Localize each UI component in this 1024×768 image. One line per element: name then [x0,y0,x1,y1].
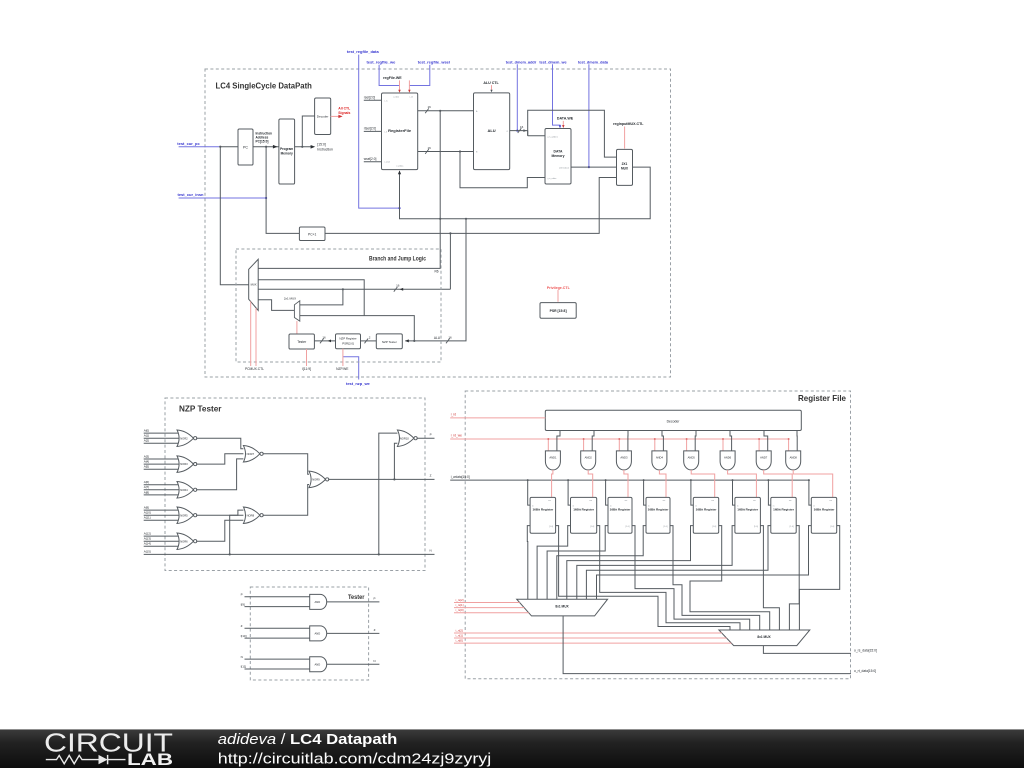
wire AND7 output to register 7 we (red) [764,470,793,498]
svg-text:Memory: Memory [551,154,564,158]
wire 2x1 branch mux input ALU [300,316,415,341]
block NZP Tester (branch) [376,334,402,349]
svg-text:i_rd_we: i_rd_we [450,433,462,437]
wire AND4 output to register 4 we (red) [659,470,666,498]
wire register 6 rt output to right 8x1 MUX pin 5 [760,526,779,630]
wire o_rs_data[15:0] output [763,646,851,654]
wire writeback R6 tap down to PC mux [258,111,440,269]
block ALU [474,93,510,170]
wire register 1 rt output to right 8x1 MUX pin 0 [556,526,730,630]
svg-text:test_regfile_data: test_regfile_data [347,49,380,54]
wire instruction to Decoder [302,116,314,147]
svg-text:A[10]: A[10] [144,511,151,515]
svg-text:i_rt[2]: i_rt[2] [455,629,463,633]
wire i_rd_we tap to AND5 (red) [686,439,688,451]
svg-text:A[9]: A[9] [144,506,150,510]
svg-text:I[10]: I[10] [241,634,247,638]
wire NOR5 out to NOR8 [196,510,243,515]
svg-text:[1:0]: [1:0] [712,526,716,528]
svg-text:wsel[2:0]: wsel[2:0] [364,157,377,161]
register 16Bit Register 8 [811,497,836,533]
svg-text:NOR7: NOR7 [247,452,255,456]
block DATA Memory [545,129,571,185]
wire regInputMUX.CTL stub (red) [624,127,626,149]
svg-text:16Bit Register: 16Bit Register [696,508,718,512]
svg-text:PC[15:0]: PC[15:0] [256,140,269,144]
wire decoder output 1 [557,431,560,451]
svg-text:AND: AND [315,600,321,604]
wire regFile WSEL stub (red) [408,80,410,91]
svg-text:16Bit Register: 16Bit Register [773,508,795,512]
mux 2x1 branch mux [294,301,299,321]
logo resistor symbol [46,755,99,763]
wire tester output N [327,663,380,665]
register 16Bit Register 1 [530,497,556,533]
wire NOR3 out to NOR7 [196,454,243,464]
svg-text:A[7]: A[7] [144,485,150,489]
svg-text:Tester: Tester [348,594,365,601]
gate NOR7 [243,446,260,463]
svg-text:AND: AND [315,632,321,636]
svg-text:16: 16 [520,125,524,129]
block Decoder U-decode [315,98,331,135]
block Program Memory [279,119,295,184]
gate NOR10 [397,430,414,447]
wire rsData RegisterFile to ALU (16) [418,110,474,112]
wire Tester to NZP Register (16) [314,340,335,342]
wire i_wdata tap to register 3 [606,480,608,505]
wire PC+1 to PC mux input (16) [258,288,450,290]
mux PCMUX 4-input [249,259,259,310]
svg-text:AND5: AND5 [688,455,696,459]
wire NZP.WE stub (red) [342,349,344,366]
svg-text:N: N [430,549,432,553]
wire PC+1 to 2X1 MUX input [325,178,617,234]
wire tester output Z [327,632,380,634]
wire N tap to NOR10 input1 [379,433,398,554]
wire AND3 output to register 3 we (red) [624,470,628,498]
svg-text:MUX: MUX [621,167,629,171]
svg-text:16: 16 [428,105,432,109]
svg-text:P: P [373,597,375,601]
wire i_wdata tap to register 4 [644,480,646,505]
svg-text:i_rs[0]: i_rs[0] [455,608,463,612]
svg-text:[1:0]: [1:0] [790,526,794,528]
wire register 7 rt output to right 8x1 MUX pin 6 [789,526,799,630]
svg-text:o_rs_data[15:0]: o_rs_data[15:0] [854,649,877,653]
svg-text:A[12]: A[12] [144,532,151,536]
svg-text:Decoder: Decoder [667,420,681,424]
svg-text:DATA.WE: DATA.WE [557,117,574,121]
svg-text:[1:0]: [1:0] [754,526,758,528]
svg-text:ALU: ALU [434,336,441,340]
svg-text:[15:0]: [15:0] [317,143,326,147]
svg-text:A[6]: A[6] [144,480,150,484]
svg-text:PSR [15:8]: PSR [15:8] [550,309,567,313]
wire 2X1 MUX output writeback to RegisterFile [400,167,651,219]
register 16Bit Register 7 [771,497,796,533]
wire i_wdata tap to register 7 [768,480,770,505]
svg-text:A[5]: A[5] [144,465,150,469]
wire decoder output 7 [764,431,768,451]
svg-text:16Bit Register: 16Bit Register [532,508,554,512]
wire i_rd_we tap to AND2 (red) [583,439,585,451]
svg-text:test_cur_insn: test_cur_insn [177,192,204,197]
wire i_rd_we tap to AND4 (red) [654,439,656,451]
svg-text:i_wdata[15:0]: i_wdata[15:0] [450,475,469,479]
svg-text:regInputMUX.CTL: regInputMUX.CTL [613,122,644,126]
svg-text:Z: Z [374,628,376,632]
svg-text:A[1]: A[1] [144,434,150,438]
wire NOR7 out to NOR9 [263,454,309,475]
wire NOR9 out Z rail [328,478,434,480]
wire register 5 rs output to left 8x1 MUX pin 4 [567,526,694,600]
block Decoder (register file) [545,410,801,430]
wire register 2 rs output to left 8x1 MUX pin 1 [537,526,570,600]
svg-text:NZP Tester: NZP Tester [179,405,222,414]
register PC [238,129,253,165]
wire decoder output 6 [730,431,732,451]
register 16Bit Register 3 [608,497,632,533]
wire i_rd_we tap to AND8 (red) [788,439,790,451]
wire 2x1 branch mux select (red) [296,321,298,334]
svg-text:R6: R6 [434,270,438,274]
svg-text:PCMUX.CTL: PCMUX.CTL [245,367,264,371]
svg-text:Z: Z [430,474,432,478]
wire decoder output 2 [592,431,594,451]
svg-text:test_nzp_we: test_nzp_we [346,381,371,386]
svg-text:2x1 MUX: 2x1 MUX [284,297,296,301]
svg-text:adideva / LC4 Datapath: adideva / LC4 Datapath [218,732,398,748]
svg-text:16Bit Register: 16Bit Register [573,508,595,512]
wire register 6 rs output to left 8x1 MUX pin 5 [577,526,735,600]
wire AND2 output to register 2 we (red) [588,470,593,498]
svg-text:AND1: AND1 [549,455,557,459]
svg-text:DATA: DATA [554,150,563,154]
wire i_rd_we tap to AND6 (red) [722,439,724,451]
svg-text:AND2: AND2 [585,455,593,459]
svg-text:16Bit Register: 16Bit Register [814,508,836,512]
svg-text:16Bit Register: 16Bit Register [737,508,759,512]
wire AND5 output to register 5 we (red) [691,470,715,498]
wire register 3 rt output to right 8x1 MUX pin 2 [632,526,750,630]
svg-text:NOR2: NOR2 [180,436,188,440]
svg-text:i_m_addres: i_m_addres [546,135,557,138]
svg-text:Memory: Memory [281,151,293,155]
svg-text:test_dmem_we: test_dmem_we [539,61,566,65]
svg-text:[1:0]: [1:0] [590,526,594,528]
svg-text:i_rd: i_rd [450,412,456,416]
svg-text:I[11]: I[11] [241,665,247,669]
svg-text:ALU: ALU [487,128,495,133]
svg-text:[1:0]: [1:0] [549,526,553,528]
wire Privilege.CTL stub (red) [557,290,559,302]
wire ALU result to DATA Memory addr and bypass [528,110,617,157]
register 16Bit Register 4 [646,497,670,533]
wire i_rd_we tap to AND3 (red) [618,439,620,451]
svg-text:test_regfile_we: test_regfile_we [366,60,396,65]
svg-text:test_dmem_addr: test_dmem_addr [506,61,537,65]
wire i_wdata tap to register 8 [809,480,811,505]
LC4 SingleCycle DataPath outer dashed boundary [205,69,671,377]
wire decoder output 8 [796,431,798,451]
svg-text:Instruction: Instruction [317,148,333,152]
svg-text:NOR3: NOR3 [180,462,188,466]
wire tester output P [327,601,380,603]
svg-text:I[9]: I[9] [241,602,245,606]
wire AND1 output to register 1 we (red) [552,470,553,498]
wire i_wdata tap to register 2 [568,480,570,505]
svg-text:NZP Tester: NZP Tester [382,340,397,344]
svg-text:r_rdwe: r_rdwe [393,96,401,99]
wire PC output to Program Memory [253,146,279,148]
wire A[15] tap to NOR8 [230,515,244,554]
svg-text:16: 16 [448,335,452,339]
wire NOR10 out P [417,437,435,439]
svg-text:8x1 MUX: 8x1 MUX [555,605,569,609]
wire register 4 rs output to left 8x1 MUX pin 3 [557,526,646,600]
svg-text:16: 16 [428,146,432,150]
wire register 8 rt output to right 8x1 MUX pin 7 [799,526,839,630]
wire AND6 output to register 6 we (red) [728,470,757,498]
svg-text:P: P [241,593,243,597]
wire register 8 rs output to left 8x1 MUX pin 7 [597,526,812,600]
svg-text:Tester: Tester [297,340,307,344]
wire register 3 rs output to left 8x1 MUX pin 2 [547,526,608,600]
svg-text:MUX: MUX [251,283,257,287]
wire decoder output 5 [694,431,697,451]
svg-text:PC: PC [243,145,248,149]
svg-text:A[14]: A[14] [144,542,151,546]
svg-text:2X1: 2X1 [622,162,628,166]
svg-text:A[0]: A[0] [144,429,150,433]
svg-text:P: P [430,432,432,436]
register 16Bit Register 6 [735,497,761,533]
register 16Bit Register 5 [693,497,718,533]
mux 8x1 MUX rt output mux [719,630,810,646]
svg-text:i_rs[1]: i_rs[1] [455,603,463,607]
block NZP Register PSR[2:0] [336,334,361,349]
svg-text:A[13]: A[13] [144,537,151,541]
svg-text:LC4 SingleCycle DataPath: LC4 SingleCycle DataPath [216,80,312,90]
svg-text:[1:0]: [1:0] [663,526,667,528]
svg-text:16: 16 [322,335,326,339]
svg-text:Signals: Signals [338,111,350,115]
svg-text:16Bit Register: 16Bit Register [610,508,632,512]
svg-text:r_rs: r_rs [384,100,388,103]
wire register 2 rt output to right 8x1 MUX pin 1 [597,526,740,630]
wire NZP Register to NZP Tester (2) [361,340,377,342]
block Tester (branch) [289,334,314,349]
wire register 7 rs output to left 8x1 MUX pin 6 [586,526,770,600]
wire o_rt_data[15:0] output [563,616,851,674]
wire NOR2 out to NOR7 [196,438,243,449]
svg-text:NOR10: NOR10 [400,436,409,440]
wire NOR4 out to NOR7 [196,459,243,490]
svg-text:i_rt[1]: i_rt[1] [455,634,463,638]
Branch and Jump Logic dashed boundary [236,249,441,362]
wire i_wdata tap to register 5 [691,480,693,505]
svg-text:[15:0] dout: [15:0] dout [559,166,569,169]
svg-text:Branch and Jump Logic: Branch and Jump Logic [369,255,426,262]
Register File dashed boundary [465,391,850,679]
wire Z tap to NOR10 input2 [394,443,397,479]
svg-text:Decoder: Decoder [317,114,329,118]
svg-text:r_rt: r_rt [384,131,388,134]
svg-text:NOR5: NOR5 [180,513,188,517]
wire register 4 rt output to right 8x1 MUX pin 3 [670,526,760,630]
svg-text:rtsel[2:0]: rtsel[2:0] [364,127,376,131]
svg-text:i_rt[0]: i_rt[0] [455,639,463,643]
wire regFile WE stub (red) [399,80,401,91]
svg-text:AND7: AND7 [760,455,768,459]
wire register 1 rs output to left 8x1 MUX pin 0 [527,526,530,600]
svg-text:o_rt_data[15:0]: o_rt_data[15:0] [854,669,876,673]
svg-text:NOR8: NOR8 [247,513,255,517]
svg-text:r_wdata: r_wdata [396,165,405,168]
svg-text:16Bit Register: 16Bit Register [648,508,670,512]
wire i_wdata tap to register 6 [733,480,735,505]
svg-text:i_m_rdata: i_m_rdata [546,177,557,180]
wire PC to PC+1 [266,147,299,234]
wire AND8 output to register 8 we (red) [793,470,833,498]
svg-text:RegisterFile: RegisterFile [388,128,412,133]
svg-text:test_regfile_wsel: test_regfile_wsel [418,60,450,65]
svg-text:test_dmem_data: test_dmem_data [578,61,609,65]
svg-text:I[11:9]: I[11:9] [302,367,311,371]
block PSR [15:8] [540,303,576,319]
svg-text:A[15]: A[15] [144,549,151,553]
wire i_rd_we tap to AND7 (red) [758,439,760,451]
wire ALU CTL stub (red) [491,85,493,91]
svg-text:AND6: AND6 [724,455,732,459]
svg-text:A[11]: A[11] [144,516,151,520]
svg-text:Privilege.CTL: Privilege.CTL [547,286,571,290]
Tester dashed boundary [250,587,368,680]
wire rtData to DATA Memory data input [460,152,545,188]
mux 8x1 MUX rs output mux [517,599,608,616]
svg-text:i_rs[2]: i_rs[2] [455,598,463,602]
gate NOR9 [309,471,326,488]
svg-text:[1:0]: [1:0] [625,526,629,528]
wire PCMUX input4 from 2x1 branch mux [258,300,294,311]
svg-text:test_cur_pc: test_cur_pc [177,141,200,146]
block PC+1 incrementer [299,227,325,241]
wire Tester I[11:9] stub (red) [306,349,308,366]
svg-text:http://circuitlab.com/cdm24zj9: http://circuitlab.com/cdm24zj9zyryj [218,752,492,768]
svg-text:N: N [241,655,243,659]
svg-text:Z: Z [241,624,243,628]
svg-text:AND4: AND4 [656,455,664,459]
wire ALU output (16) [510,130,528,132]
svg-text:PSR[2:0]: PSR[2:0] [342,342,354,346]
svg-text:r_wsel: r_wsel [384,161,391,164]
svg-text:AND: AND [315,662,321,666]
wire PCMUX select PCMUX.CTL (red) [250,301,252,366]
svg-text:NZP Register: NZP Register [339,337,356,341]
wire decoder output 3 [627,431,629,451]
svg-text:ALU CTL: ALU CTL [483,81,499,85]
svg-text:[1:0]: [1:0] [830,526,834,528]
wire DATA.WE stub (red) [562,121,564,127]
net test_nzp_we (blue) [343,357,359,380]
wire ALU result down to NZP tester (ALU 16) [405,219,466,341]
svg-text:NZP.WE: NZP.WE [336,367,349,371]
svg-text:Program: Program [280,147,293,151]
logo diode symbol [99,755,108,764]
wire Decoder control output (red) [331,115,340,117]
svg-text:NOR6: NOR6 [180,539,188,543]
svg-text:PC+1: PC+1 [308,233,317,237]
wire rtData RegisterFile to ALU (16) [418,151,474,153]
wire NOR8 out to NOR9 [263,485,309,516]
svg-text:NOR9: NOR9 [312,478,320,482]
svg-text:Register File: Register File [798,393,846,403]
footer bar [0,729,1024,768]
wire i_rd_we tap to AND1 (red) [547,439,549,451]
wire DATA Memory output to 2X1 MUX [571,166,617,168]
svg-text:NOR4: NOR4 [180,488,188,492]
svg-text:regFile.WE: regFile.WE [383,76,402,80]
gate NOR8 [243,507,260,524]
svg-text:16: 16 [396,284,400,288]
svg-text:A[3]: A[3] [144,454,150,458]
register 16Bit Register 2 [571,497,597,533]
wire i_wdata tap to register 1 [528,480,530,505]
wire decoder output 4 [662,431,663,451]
wire into PC [220,146,238,148]
svg-text:A[2]: A[2] [144,439,150,443]
wire ALU result to PC mux input [258,280,364,316]
svg-text:8x1 MUX: 8x1 MUX [757,635,771,639]
wire PC mux output feedback to PC input [220,147,248,285]
block RegisterFile [382,93,418,170]
NZP Tester dashed boundary [165,398,425,571]
svg-text:A[4]: A[4] [144,460,150,464]
svg-text:AND8: AND8 [790,455,798,459]
svg-text:A[8]: A[8] [144,490,150,494]
wire Program Memory instruction output [295,146,311,148]
svg-text:AND3: AND3 [620,455,628,459]
wire NOR6 out to NOR8 [196,520,243,541]
svg-text:LAB: LAB [127,751,173,768]
wire register 5 rt output to right 8x1 MUX pin 4 [690,526,770,630]
svg-text:rsel[2:0]: rsel[2:0] [364,96,375,100]
svg-text:N: N [373,659,375,663]
wire 2x1 branch mux input PC+1 [300,289,343,305]
